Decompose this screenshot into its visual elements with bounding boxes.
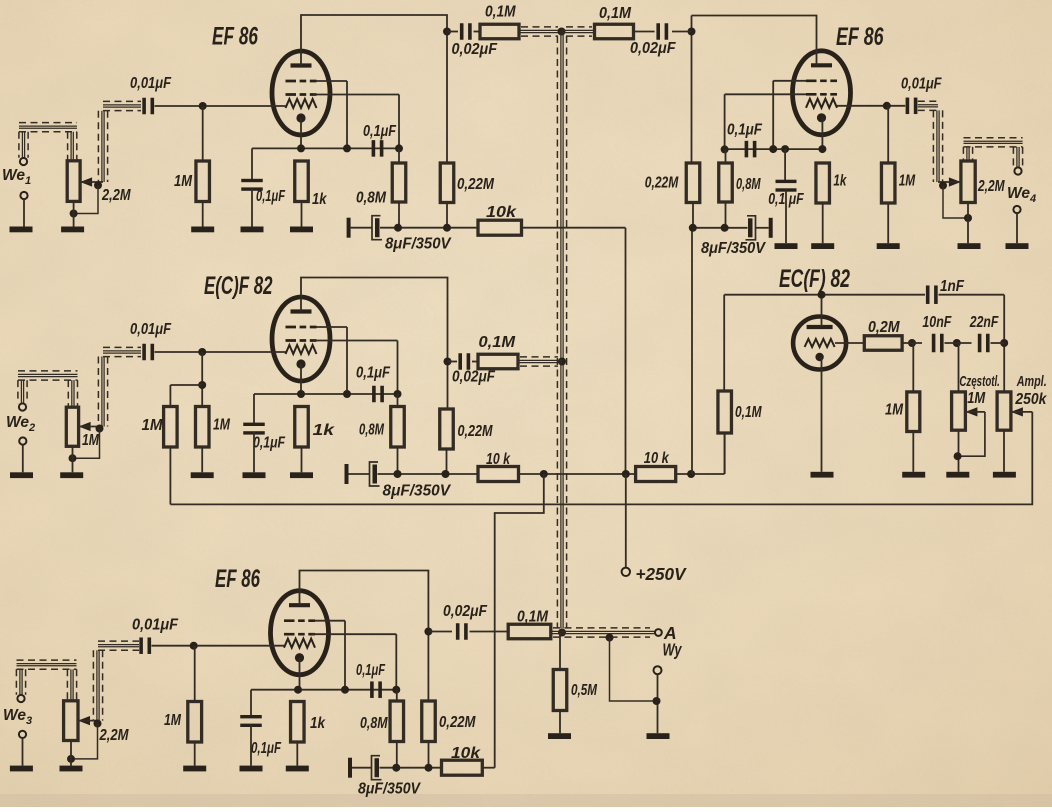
label 0,01uF (We3) [132,616,178,633]
svg-text:E(C)F 82: E(C)F 82 [204,272,273,300]
cable We1 pot to grid [98,101,141,182]
label 10k (stage2) [486,451,511,468]
resistor 0,1M (V5 anode load) [718,391,732,474]
wire V1 g2 [313,95,399,149]
wire stage2 mix to bus [518,357,562,366]
resistor 0,1M (stage3 mix) [508,624,551,639]
wire We4 shield to pot gnd [943,186,968,219]
svg-text:Wy: Wy [663,640,683,660]
svg-text:0,02μF: 0,02μF [452,369,495,386]
wire grid V1 [155,105,287,107]
resistor 1k (V3 cathode) [291,702,305,766]
ground 1k V4 [811,243,834,249]
label 0,5M [571,682,598,699]
label 0,22M (V2) [458,423,494,440]
label EF 86 (V4) [836,23,884,51]
node 0,8M bottom s3 [392,764,400,772]
ground We3 pot [60,766,83,772]
capacitor 0,01uF (We2 coupling) [142,344,154,361]
svg-text:EF 86: EF 86 [215,565,261,593]
label Ampl. [1016,373,1047,390]
ground V5 cathode [811,472,834,478]
label 0,1uF (V4 bypass) [768,191,804,208]
node grid net 1 [902,339,922,347]
shielded mixing bus vertical [557,30,566,628]
wire Wy tip down [657,674,659,733]
node We3 shield [94,720,102,728]
label 0,01uF (We4) [901,75,942,92]
label We4 [1007,185,1036,205]
ground 1M V3 [183,766,206,772]
capacitor 0,1uF (V4 screen) [745,141,757,158]
node V3 output tap [424,628,432,636]
label 2,2M (We3) [99,727,130,744]
label 0,1M (stage2 mix) [479,334,517,351]
jack We2 sleeve [19,437,26,472]
label 0,22M (V4) [645,175,679,192]
resistor 1M (V1 grid) [196,106,210,227]
label 10k (stage1) [486,204,518,221]
node We4 shield [939,182,947,190]
label 10k (right) [644,450,670,467]
capacitor 0,1uF (V4 cathode bypass) [776,149,797,192]
resistor 1M (V2 grid) [196,407,210,448]
node V2 screen [394,390,402,398]
label We2 [6,414,35,434]
svg-text:1M: 1M [967,390,986,407]
svg-text:8μF/350V: 8μF/350V [385,236,452,253]
svg-text:1k: 1k [833,173,847,190]
capacitor 0,1uF (V3 screen) [370,681,382,698]
tube V1 EF 86 (top-left) [272,51,330,135]
ground 0,5M [548,733,571,739]
label 0,02uF (stage4) [630,40,676,57]
node V3 screen [392,686,400,694]
node We4 pot bottom [964,214,972,222]
cable We2 pot to grid [98,347,141,426]
ground Wy [647,733,670,739]
label 0,1uF (V3 screen) [356,662,385,679]
svg-text:1k: 1k [312,191,328,208]
wire V5 grid [835,342,864,344]
wire right EF86 B+ drop [691,228,693,474]
label 0,02uF (stage2) [452,369,495,386]
label 0,8M (V4) [736,176,761,193]
node V5 anode tap [818,291,826,299]
node 0,22M bottom s2 [442,470,450,478]
capacitor 0,02uF (stage1 out) [447,23,480,40]
ground We4 jack [1006,243,1029,249]
svg-text:Częstotl.: Częstotl. [959,373,1000,390]
label 0,1uF (V1 bypass) [256,188,285,205]
svg-text:0,1μF: 0,1μF [251,740,281,757]
ground We2 jack [10,472,33,478]
node shield gnd tap [606,634,614,642]
label 0,01uF (We2) [130,321,171,338]
svg-text:+250V: +250V [636,564,687,584]
svg-text:1M: 1M [174,173,193,190]
node V4 screen [721,145,729,153]
potentiometer 2,2M (We3) [64,701,78,741]
cable We3 pot to grid [93,641,139,721]
resistor 1M (V3 grid) [188,646,202,766]
node V1 grid / 1M [199,102,207,110]
svg-text:0,2M: 0,2M [868,319,900,336]
svg-text:Ampl.: Ampl. [1016,373,1047,390]
wire V3 cathode row [251,690,396,718]
ground We1 pot [61,227,84,233]
label 1M (feedback leg) [142,417,164,434]
label 0,1uF (V2 bypass) [253,435,285,452]
ground We1 jack [10,227,33,233]
potentiometer 2,2M (We1) [67,161,80,202]
resistor 10k (right decoupling) [636,467,676,482]
ground 1M V2 [191,472,214,478]
label Czestotl. [959,373,1000,390]
node grid net 2 [945,339,972,347]
node 0,8M bottom s2 [394,470,402,478]
node V2 grid 1M tie [170,381,206,407]
jack We2 tip [19,403,26,410]
resistor 1M (feedback leg) [164,407,178,448]
wire B+ to bottom stage [495,474,544,768]
resistor 10k (stage3 decoupling) [442,760,483,775]
node Wy sleeve [653,697,661,705]
label 2,2M (We1) [101,187,131,204]
label +250V [636,564,687,584]
wiper We3 [78,716,98,725]
label 0,1M (stage3) [517,609,549,626]
capacitor 0,1uF (V1 screen) [372,140,384,157]
wire stage3 B+ right [482,767,494,769]
wire stage3 out to A [551,628,656,637]
resistor 1M (V4 grid) [881,106,895,243]
svg-text:2,2M: 2,2M [101,187,131,204]
svg-text:0,8M: 0,8M [360,715,388,732]
label 0,2M [868,319,900,336]
label 0,1uF (V1 screen) [363,123,396,140]
wire B+ row right [676,433,725,474]
svg-text:EF 86: EF 86 [836,23,884,51]
svg-text:1k: 1k [310,715,326,732]
jack We3 tip [17,695,24,702]
ground Ampl [993,472,1016,478]
svg-text:0,1M: 0,1M [599,5,632,22]
svg-text:8μF/350V: 8μF/350V [383,483,452,500]
svg-text:250k: 250k [1015,391,1048,408]
wire stage4 B+ row [693,227,748,229]
label 0,22M (V3) [439,714,476,731]
svg-text:10k: 10k [486,204,518,221]
svg-text:0,1μF: 0,1μF [363,123,396,140]
node V3 grid [190,642,198,650]
label 0,1uF (V2 screen) [356,365,390,382]
ground We2 pot [60,472,83,478]
wire V4 cathode [821,118,823,149]
capacitor 0,1uF (V3 cathode bypass) [240,715,262,727]
svg-text:0,02μF: 0,02μF [443,603,487,620]
terminal A [655,629,662,636]
wire V3 g2 [312,634,397,690]
wire V1 cathode [300,118,302,148]
label 1M (V4 grid) [899,172,916,189]
resistor 0,1M (stage4 mix) [595,24,634,39]
wire mix bus top left segment [519,27,562,36]
resistor 10k (stage1 decoupling) [478,220,522,235]
resistor 0,8M (V1 screen) [392,148,406,227]
node We3 pot bottom [67,755,75,763]
ground We3 jack [10,766,33,772]
label We3 [3,707,32,727]
wire +250V lead [625,474,627,568]
svg-text:0,22M: 0,22M [457,176,495,193]
svg-text:1M: 1M [142,417,164,434]
label 0,1uF (V4 screen) [727,122,762,139]
label Wy [663,640,683,660]
potentiometer 2,2M (We4) [961,161,975,203]
node V4 g3 tie [769,81,806,153]
svg-text:0,5M: 0,5M [571,682,598,699]
wire V2 g2 [313,341,398,395]
tube V5 EC(F) 82 [793,317,846,370]
wiper We1 [80,177,103,186]
svg-text:0,1μF: 0,1μF [356,662,385,679]
resistor 1k (V2 cathode) [295,407,309,473]
label 1M (Czestotl) [967,390,986,407]
wire V4 g2 [725,94,806,149]
node right EF86 B+ join [687,470,695,478]
node V1 output tap [443,28,451,36]
svg-text:0,1M: 0,1M [485,4,516,21]
node V1 g3 tie [316,81,351,152]
capacitor 10nF [932,334,944,353]
svg-text:1M: 1M [82,432,100,449]
wiper Ampl [1011,407,1032,416]
svg-text:1M: 1M [885,402,904,419]
wire V5 anode rail [724,295,925,391]
label 8uF/350V (stage3) [358,781,422,798]
ground 1M V4 [877,243,900,249]
capacitor 8uF/350V (stage4) [746,216,773,240]
node V3 g3 tie [315,621,350,694]
label 8uF/350V (stage2) [383,483,452,500]
potentiometer Czestotl 1M [952,343,966,472]
label 0,8M (V2) [359,422,385,439]
label A [663,623,677,643]
wire V2 cathode [300,364,302,394]
wire V4 cathode row [725,148,823,150]
wiper We4 [938,177,961,186]
ground 1k V3 [286,766,309,772]
svg-text:0,01μF: 0,01μF [130,321,171,338]
node V4 output tap [688,28,696,36]
label 0,1M (V5) [735,404,762,421]
ground 1M V1 [191,227,214,233]
node V2 grid [198,348,206,356]
node V1 screen [395,144,403,152]
node V2 cathode [297,390,305,398]
label 1M (V5) [885,402,904,419]
svg-text:0,8M: 0,8M [736,176,761,193]
label 1k (V4) [833,173,847,190]
label 0,01uF (We1) [130,75,171,92]
wire stage1 B+ to +250V line [522,228,626,474]
node mixing bus T [558,28,566,36]
ground 0,1uF V3 [240,725,263,772]
node 0,8M bottom s4 [721,224,729,232]
capacitor 0,01uF (We3 coupling) [139,637,151,654]
ground 0,1uF V1 [241,188,264,232]
label 1k (V2) [313,422,336,439]
jack We1 sleeve [20,192,27,227]
wire stage2 B+ row [378,473,479,475]
svg-text:0,1M: 0,1M [735,404,762,421]
label 1M (V2 grid) [213,417,231,434]
wire We2 shield to pot gnd [73,429,100,459]
svg-text:0,02μF: 0,02μF [452,41,498,58]
node Czestotl bottom tie [954,452,962,460]
wire feedback line [170,412,1032,505]
node We1 pot bottom [70,210,78,218]
node 0,8M bottom s1 [394,224,402,232]
svg-text:0,1μF: 0,1μF [256,188,285,205]
node +250V tap [622,470,630,478]
jack We4 tip [1014,167,1021,174]
jack We1 tip [20,158,27,165]
wire B+ row middle [519,473,636,475]
cable We2 jack to pot [18,371,78,407]
node We2 pot bottom [69,454,77,462]
tube V2 E(C)F 82 [272,297,330,381]
resistor 0,22M (V2 anode load) [440,409,454,474]
svg-text:0,22M: 0,22M [439,714,476,731]
svg-text:0,02μF: 0,02μF [630,40,676,57]
jack We3 sleeve [19,731,26,766]
capacitor 0,1uF (V2 cathode bypass) [243,423,265,435]
svg-text:2,2M: 2,2M [977,178,1005,195]
wire grid V2 [155,351,287,353]
resistor 1k (V4 cathode) [816,163,830,243]
wire 1nF to right rail [939,295,1005,391]
resistor 1M (V5 grid leak) [907,343,920,472]
label 22nF [969,314,999,331]
svg-text:0,8M: 0,8M [359,422,385,439]
label 0,1uF (V3 bypass) [251,740,281,757]
node We1 shield [94,181,102,189]
node V4 grid [883,102,891,110]
wire V2 cathode row [254,394,398,425]
wire We1 pot to gnd [73,201,75,226]
wire stage3 B+ row [380,767,442,769]
wire V5 cathode [821,357,823,472]
ground 1k V1 [290,227,313,233]
wire V4 anode rail [692,16,817,164]
label EF 86 (V1) [212,23,259,51]
svg-text:0,01μF: 0,01μF [901,75,942,92]
label 1k (V1) [312,191,328,208]
wire We3 shield to pot gnd [71,724,98,759]
wire We2 pot to gnd [72,446,74,472]
svg-text:10nF: 10nF [922,314,951,331]
svg-text:8μF/350V: 8μF/350V [701,240,767,257]
node V4 cathode [818,145,826,153]
node B+ drop to lower stage [540,470,548,478]
svg-text:1k: 1k [313,422,336,439]
svg-text:0,8M: 0,8M [356,190,387,207]
svg-text:0,1μF: 0,1μF [356,365,390,382]
wire grid V4 [837,105,905,107]
node V2 output tap [444,358,452,366]
svg-text:1nF: 1nF [940,278,964,295]
label 1nF [940,278,964,295]
ground Czestotl [946,472,969,478]
label 250k [1015,391,1048,408]
jack We4 sleeve [1013,206,1020,243]
capacitor 22nF [978,334,990,353]
capacitor 8uF/350V (stage1) [347,216,382,240]
svg-text:1M: 1M [213,417,231,434]
ground 1M V5 [902,472,925,478]
node bus bottom corner [558,629,566,637]
svg-text:EF 86: EF 86 [212,23,259,51]
node V2 g3 tie [316,327,351,398]
wiper We2 [79,422,103,431]
wire We4 pot to gnd [967,203,969,244]
jack Wy tip [654,666,662,674]
label 0,22M (V1) [457,176,495,193]
cable We4 pot to grid [918,101,943,182]
capacitor 0,01uF (We1 coupling) [142,98,154,115]
svg-text:0,01μF: 0,01μF [130,75,171,92]
ground 0,1uF V2 [243,432,266,478]
wiper Czestotl [965,407,985,416]
wire mix bus top right segment [562,27,595,36]
resistor 0,22M (V3 anode load) [422,701,436,768]
cable We3 jack to pot [16,660,76,701]
wire stage1 B+ row [380,227,478,229]
capacitor 0,02uF (stage4 out) [634,23,692,40]
svg-text:0,1M: 0,1M [479,334,517,351]
resistor 0,8M (V3 screen) [390,690,404,768]
label We1 [2,167,31,187]
cable We1 jack to pot [19,123,77,161]
label 0,1M (stage1 mix) [485,4,516,21]
resistor 0,1M (stage1 mix) [480,24,519,39]
resistor 0,22M (V1 anode load) [440,163,454,228]
svg-text:0,01μF: 0,01μF [132,616,178,633]
capacitor 0,02uF (stage2 out) [448,353,479,370]
cable We4 jack to pot [963,138,1022,168]
svg-text:0,22M: 0,22M [645,175,679,192]
node 0,22M bottom s3 [425,764,433,772]
resistor 0,5M (output load) [553,633,567,734]
node bus stage2 tap [558,358,566,366]
svg-text:2,2M: 2,2M [99,727,130,744]
resistor 0,2M (V5 grid) [864,336,902,351]
node 0,22M bottom s1 [443,224,451,232]
node V3 cathode [294,686,302,694]
svg-text:22nF: 22nF [969,314,999,331]
label 10nF [922,314,951,331]
svg-text:1M: 1M [164,712,182,729]
ground We4 pot [958,243,981,249]
label E(C)F 82 [204,272,273,300]
label EF 86 (V3) [215,565,261,593]
label 1M (V1 grid) [174,173,193,190]
node grid net 3 [991,339,1009,347]
resistor 0,22M (V4 anode load) [686,163,700,228]
wire V2 grid down [201,352,203,407]
